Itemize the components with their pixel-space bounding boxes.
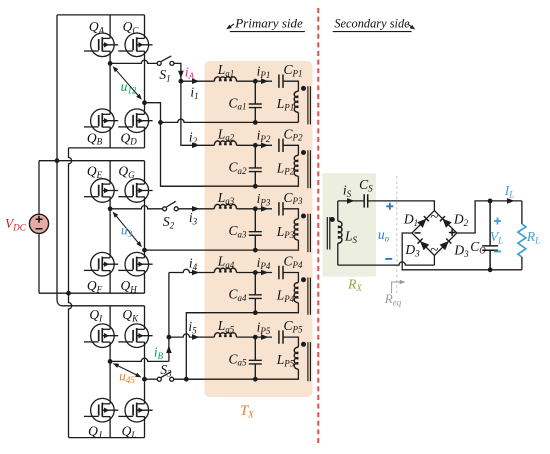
capacitor C_a2 bbox=[249, 145, 262, 186]
transformer core cell 4 bbox=[308, 278, 311, 315]
wire C_P1 to L_P1 bbox=[283, 81, 298, 91]
capacitor C_a4 bbox=[249, 273, 262, 313]
transistor Q_K bbox=[118, 324, 152, 348]
capacitor C_P1 bbox=[279, 75, 283, 88]
junction DC- bus bbox=[66, 291, 71, 296]
transformer tank shaded region T_X bbox=[205, 61, 313, 397]
wire row-3 return rail bbox=[145, 240, 299, 250]
wire node to C_P2 bbox=[255, 144, 272, 146]
voltage u_3 arrow bbox=[113, 212, 142, 248]
wire node to C_P5 bbox=[255, 336, 272, 338]
junction C_a1 return bbox=[253, 120, 258, 125]
svg-text:~: ~ bbox=[430, 210, 438, 226]
polarity dot L_P5 bbox=[301, 342, 306, 347]
current arrow i_2 bbox=[192, 143, 200, 149]
wire group-3 top rail bbox=[63, 305, 145, 307]
secondary resonant shaded region R_X bbox=[323, 173, 377, 277]
transistor Q_C bbox=[118, 33, 152, 57]
wire C_P3 to L_P3 bbox=[283, 209, 298, 219]
wire C_P4 to L_P4 bbox=[283, 273, 298, 283]
current arrow i_P3 bbox=[261, 206, 269, 212]
voltage u_45 arrow bbox=[113, 363, 142, 377]
R_eq pointer arrow bbox=[392, 280, 406, 294]
voltage source V_DC bbox=[29, 161, 48, 294]
voltage u_12 arrow bbox=[113, 66, 142, 100]
wire C_P2 to L_P2 bbox=[283, 145, 298, 155]
node C (leg C midpoint) bbox=[142, 100, 147, 105]
transistor Q_L bbox=[118, 398, 152, 422]
node K (leg K midpoint) bbox=[142, 377, 147, 382]
transistor Q_G bbox=[118, 179, 152, 203]
wire C_S to bridge top vertex bbox=[368, 201, 435, 211]
diode D3 (lower-left) bbox=[418, 239, 430, 251]
label u_o plus bbox=[386, 203, 393, 210]
wire node to C_P1 bbox=[255, 80, 272, 82]
wire S_2 to row-3 input bbox=[178, 208, 214, 210]
wire node I to i_B corner (hop over leg K) bbox=[110, 358, 169, 361]
wire DC- bus with hops bbox=[69, 148, 72, 438]
wire L_a5 to node bbox=[237, 336, 256, 338]
capacitor C_a5 bbox=[249, 337, 262, 379]
polarity dot L_P4 bbox=[301, 277, 306, 282]
current arrow i_1 bbox=[192, 78, 200, 84]
wire row-2 return rail bbox=[161, 176, 299, 186]
transformer core cell 5 bbox=[308, 342, 311, 381]
current arrow i_S bbox=[347, 198, 355, 204]
switch S_1 bbox=[157, 56, 174, 66]
current arrow i_P4 bbox=[261, 270, 269, 276]
wire L_S top to C_S bbox=[338, 200, 364, 202]
wire row-1 return rail (hop) bbox=[161, 119, 299, 122]
capacitor C_a3 bbox=[249, 209, 262, 250]
current arrow i_4 bbox=[192, 270, 200, 276]
polarity dot L_P3 bbox=[301, 214, 306, 219]
wire C_P5 to L_P5 bbox=[283, 337, 298, 347]
junction DC+ bus bbox=[55, 158, 60, 163]
polarity dot L_P1 bbox=[301, 86, 306, 91]
switch S_2 bbox=[163, 201, 179, 211]
capacitor C_P4 bbox=[279, 266, 283, 279]
current arrow i_3 bbox=[192, 206, 200, 212]
diode bridge outline bbox=[412, 211, 457, 256]
wire group-2 top rail bbox=[39, 160, 145, 162]
inductor L_a2 bbox=[214, 141, 236, 145]
current arrow I_L bbox=[507, 198, 515, 204]
wire group-1 top rail bbox=[57, 14, 145, 16]
junction C_a5 return bbox=[253, 377, 258, 382]
wire node to C_P4 bbox=[255, 272, 272, 274]
junction C_a4 return bbox=[253, 310, 258, 315]
wire leg I-J vertical bbox=[109, 306, 111, 438]
transformer core cell 2 bbox=[308, 150, 311, 188]
current arrow i_P5 bbox=[261, 334, 269, 340]
wire row-5 input (hop over S_3 riser) bbox=[169, 334, 214, 337]
wire group-3 bottom rail bbox=[69, 437, 145, 439]
node cell-4 tank bbox=[253, 270, 258, 275]
wire i_1 row-1 input bbox=[181, 80, 214, 82]
transistor Q_E bbox=[84, 179, 118, 203]
wire node E to S_2 (hop over leg G) bbox=[110, 206, 163, 209]
equivalent-resistance dashed line bbox=[396, 176, 398, 293]
capacitor C_P2 bbox=[279, 139, 283, 152]
wire bridge plus output to DC+ rail bbox=[457, 201, 522, 233]
capacitor C_S bbox=[364, 194, 368, 207]
wire L_a3 to node bbox=[237, 208, 256, 210]
capacitor C_O bbox=[482, 201, 498, 270]
wire leg G-H vertical bbox=[144, 161, 146, 294]
current arrow i_P2 bbox=[261, 143, 269, 149]
wire node to C_P3 bbox=[255, 208, 272, 210]
wire bridge bottom vertex stub bbox=[433, 255, 435, 265]
wire leg C-D vertical bbox=[144, 15, 146, 148]
junction i_1/i_2 split bbox=[179, 79, 184, 84]
svg-text:Secondary side: Secondary side bbox=[334, 17, 410, 31]
node cell-2 tank bbox=[253, 143, 258, 148]
transistor Q_F bbox=[84, 252, 118, 276]
wire S_1 to i_A node bbox=[174, 63, 181, 81]
capacitor C_P5 bbox=[279, 330, 283, 343]
wire L_a4 to node bbox=[237, 272, 256, 274]
label V_L minus bbox=[494, 251, 501, 253]
node cell-3 tank bbox=[253, 206, 258, 211]
wire leg A-B vertical bbox=[109, 15, 111, 148]
resistor R_L bbox=[518, 201, 526, 270]
wire row-4 return rail bbox=[186, 303, 298, 313]
transformer core cell 3 bbox=[308, 214, 311, 252]
switch S_3 bbox=[145, 372, 174, 382]
transistor Q_H bbox=[118, 252, 152, 276]
current arrow i_B bbox=[166, 346, 172, 354]
diode D1 bbox=[417, 216, 429, 228]
wire i_B vertical feeding rows 4-5 bbox=[168, 273, 170, 362]
junction row-5 feed bbox=[167, 335, 172, 340]
transformer primary winding L_P4 bbox=[294, 283, 298, 303]
wire group-2 bottom rail bbox=[39, 292, 145, 294]
transformer primary winding L_P3 bbox=[294, 219, 298, 240]
wire leg E-F vertical bbox=[109, 161, 111, 294]
node A (leg A midpoint) bbox=[108, 61, 113, 66]
transistor Q_D bbox=[118, 109, 152, 133]
wire row-5 return rail bbox=[186, 369, 298, 379]
wire S_3 to row-5 return / row-4 return riser bbox=[174, 313, 205, 380]
transformer primary winding L_P2 bbox=[294, 155, 298, 176]
wire L_a2 to node bbox=[237, 144, 256, 146]
bridge minus mark bbox=[415, 232, 421, 234]
current arrow i_5 bbox=[192, 334, 200, 340]
capacitor C_a1 bbox=[249, 81, 262, 122]
polarity dot L_P2 bbox=[301, 150, 306, 155]
polarity dot L_S bbox=[330, 217, 335, 222]
wire node C down-bus (rows 1-2 return) bbox=[145, 103, 205, 187]
label Primary side bbox=[226, 16, 305, 32]
junction C_a2 return bbox=[253, 184, 258, 189]
current arrow i_P1 bbox=[261, 78, 269, 84]
wire L_S bottom to bridge bottom vertex (hop over DC- drop) bbox=[338, 262, 435, 265]
label V_L plus bbox=[494, 218, 501, 225]
transistor Q_J bbox=[84, 398, 118, 422]
wire group-1 bottom rail bbox=[69, 147, 145, 149]
transformer primary winding L_P5 bbox=[294, 347, 298, 369]
wire i_2 feed vertical (hop over row-1 return) bbox=[181, 81, 214, 145]
wire node A to S_1 (hop over leg C) bbox=[110, 60, 157, 63]
wire L_a1 to node bbox=[237, 80, 256, 82]
inductor L_a4 bbox=[214, 268, 236, 272]
secondary winding L_S bbox=[337, 201, 339, 221]
junction C_O top bbox=[488, 199, 493, 204]
transistor Q_B bbox=[84, 109, 118, 133]
transformer core cell 1 bbox=[308, 86, 311, 124]
label Secondary side bbox=[333, 17, 416, 32]
node cell-5 tank bbox=[253, 335, 258, 340]
primary/secondary divider dashed line bbox=[317, 8, 319, 445]
transformer primary winding L_P1 bbox=[294, 91, 298, 112]
diode D2 bbox=[440, 216, 452, 228]
node cell-1 tank bbox=[253, 79, 258, 84]
capacitor C_P3 bbox=[279, 202, 283, 215]
node G (leg G midpoint) bbox=[142, 248, 147, 253]
inductor L_a3 bbox=[214, 204, 236, 208]
junction C_a3 return bbox=[253, 248, 258, 253]
diode D3 (lower-right) bbox=[440, 239, 452, 251]
svg-text:Primary side: Primary side bbox=[234, 16, 303, 31]
inductor L_a5 bbox=[214, 333, 236, 337]
junction row-1 return bbox=[158, 120, 163, 125]
transistor Q_A bbox=[84, 33, 118, 57]
transistor Q_I bbox=[84, 324, 118, 348]
junction C_O bottom bbox=[488, 267, 493, 272]
junction S_3 / row returns bbox=[184, 377, 189, 382]
node E (leg E midpoint) bbox=[108, 206, 113, 211]
wire leg K-L vertical bbox=[144, 306, 146, 438]
wire row-4 input (decorative hop) bbox=[169, 269, 214, 272]
inductor L_a1 bbox=[214, 77, 236, 81]
wire bridge minus output to DC- rail bbox=[402, 233, 522, 270]
label u_o minus bbox=[385, 258, 392, 260]
wire DC+ bus (left vertical) bbox=[57, 15, 63, 306]
bridge plus mark bbox=[449, 229, 455, 235]
node I (leg I midpoint) bbox=[108, 359, 113, 364]
transformer core secondary bbox=[327, 217, 330, 250]
current arrow i_A bbox=[178, 71, 184, 79]
